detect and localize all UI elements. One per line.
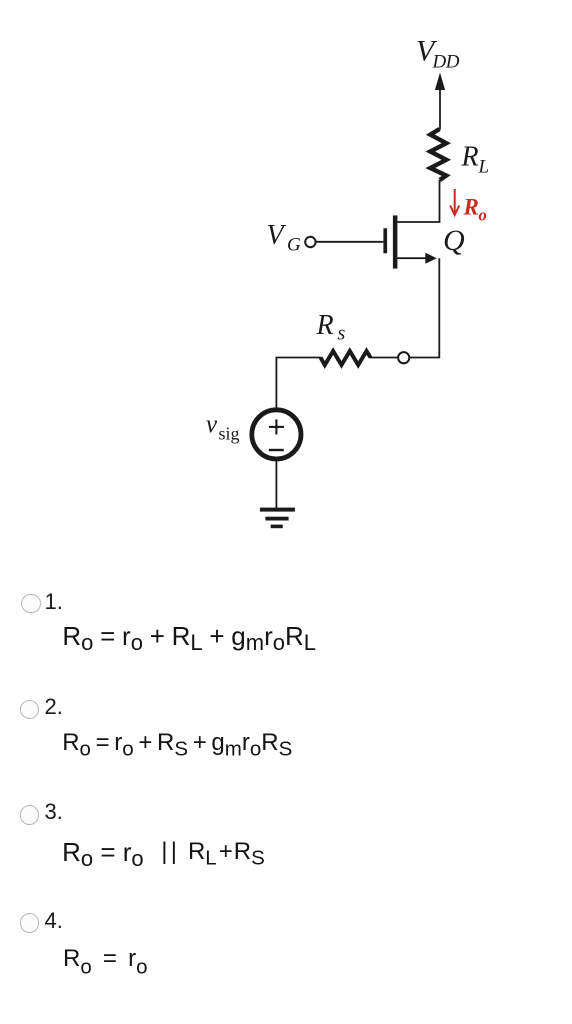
- option 3: [20, 805, 39, 824]
- transistor Q channel bar: [393, 215, 398, 268]
- resistor RL: [430, 129, 446, 180]
- wire drain to RL: [398, 180, 440, 222]
- wire node to Rs: [370, 357, 398, 359]
- label RL: [461, 142, 490, 178]
- wire Rs to source vsig: [276, 358, 321, 409]
- source lead with arrow: [397, 253, 436, 264]
- option 4: [20, 913, 39, 932]
- svg-text:R: R: [461, 142, 479, 173]
- svg-text:G: G: [287, 235, 301, 256]
- label Ro (red): [463, 195, 487, 225]
- minus sign: [269, 449, 284, 451]
- node terminal (open circle): [398, 352, 409, 363]
- transistor Q gate bar: [383, 228, 387, 253]
- svg-text:s: s: [338, 323, 346, 345]
- ground: [260, 508, 295, 529]
- svg-text:Q: Q: [443, 224, 465, 257]
- label VG: [267, 220, 302, 256]
- node VDD label: [416, 35, 460, 73]
- wire source down to node: [410, 258, 439, 357]
- svg-text:o: o: [479, 206, 487, 225]
- source vsig (circle): [252, 410, 301, 459]
- label Rs: [316, 310, 346, 345]
- svg-text:V: V: [267, 220, 287, 251]
- svg-text:R: R: [463, 195, 479, 220]
- wire vsig to ground: [275, 461, 277, 508]
- option 2: [20, 700, 39, 719]
- gate lead wire: [316, 241, 383, 243]
- svg-text:R: R: [316, 310, 334, 341]
- wire VDD supply arrow: [435, 73, 445, 130]
- resistor Rs: [321, 351, 371, 365]
- red arrow Ro direction: [450, 189, 459, 215]
- option 1: [21, 594, 40, 613]
- terminal VG (open circle): [305, 237, 315, 247]
- svg-text:sig: sig: [219, 423, 240, 443]
- plus sign: [269, 419, 284, 434]
- circuit schematic: [0, 0, 572, 560]
- svg-text:L: L: [478, 157, 490, 178]
- svg-text:v: v: [206, 411, 218, 438]
- label vsig: [206, 411, 240, 443]
- svg-text:DD: DD: [432, 52, 460, 73]
